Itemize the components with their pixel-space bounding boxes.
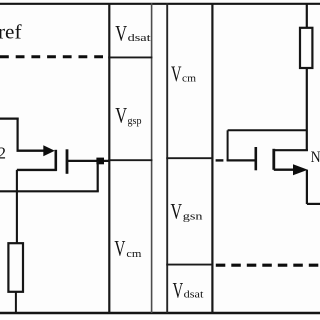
headroom ladder column 1 right edge: [151, 3, 153, 313]
svg-text:gsn: gsn: [183, 212, 204, 223]
label Vdsat column2 bottom: [173, 277, 204, 302]
svg-text:dsat: dsat: [128, 33, 151, 44]
resistor R1: [8, 243, 23, 292]
svg-text:V: V: [171, 199, 183, 224]
M2 source loop horizontal: [17, 169, 57, 171]
resistor R2: [300, 28, 312, 68]
svg-text:V: V: [114, 236, 125, 261]
wire N source down: [306, 170, 308, 204]
dashed level line left (Vref level): [0, 55, 108, 58]
svg-text:2: 2: [0, 144, 6, 163]
dashed level line right (source level): [216, 264, 320, 267]
headroom ladder column 1 left edge: [108, 3, 110, 313]
wire N source out right: [307, 203, 320, 205]
headroom ladder column 2 left edge: [166, 3, 168, 313]
column 1 divider Vdsat/Vgsp: [108, 56, 152, 58]
svg-text:N: N: [311, 149, 320, 166]
wire drain node bottom horizontal: [0, 190, 99, 192]
label Vcm column1: [114, 236, 141, 261]
wire diode branch vertical: [227, 130, 229, 161]
N drain lead top: [274, 149, 308, 151]
svg-text:V: V: [115, 103, 127, 128]
wire source down to resistor: [16, 170, 18, 244]
column 1 divider Vgsp/Vcm: [108, 159, 152, 161]
gate lead N transistor: [227, 159, 257, 161]
N source arrowhead: [293, 164, 308, 175]
transistor N gate bar: [255, 147, 258, 170]
junction dot drain node: [96, 158, 104, 165]
label Vgsp column1: [115, 103, 141, 128]
gate lead N transistor dash: [216, 159, 224, 161]
label Vcm column2: [171, 61, 196, 86]
wire R1 bottom: [15, 292, 17, 313]
wire R2 down: [306, 68, 308, 151]
transistor M2 gate bar: [54, 150, 57, 171]
wire Vdd to R2: [306, 4, 308, 28]
svg-text:V: V: [173, 277, 184, 302]
svg-text:ref: ref: [0, 22, 22, 44]
M2 drain lead: [67, 160, 110, 162]
wire M2 gate feed horizontal: [0, 117, 19, 119]
label Vgsn column2: [171, 199, 204, 224]
transistor N channel bar: [272, 149, 275, 170]
N source arrow line: [274, 168, 294, 170]
gate arrow line M2: [17, 149, 45, 151]
svg-text:dsat: dsat: [184, 290, 204, 301]
svg-text:cm: cm: [182, 73, 196, 84]
wire diode branch horizontal: [228, 129, 307, 131]
wire drain node down: [97, 161, 99, 191]
wire M2 gate feed vertical: [17, 118, 19, 151]
bottom ground rail: [0, 312, 320, 314]
column 2 divider Vgsn/Vdsat: [166, 264, 213, 266]
svg-text:V: V: [115, 20, 127, 45]
headroom ladder column 2 right edge: [211, 3, 213, 313]
label Vdsat column1: [115, 20, 151, 45]
top supply rail: [0, 3, 320, 5]
svg-text:V: V: [171, 61, 182, 86]
gate arrowhead M2: [43, 145, 55, 156]
column 2 divider Vcm/Vgsn: [166, 157, 213, 159]
svg-text:gsp: gsp: [128, 116, 142, 127]
svg-text:cm: cm: [126, 249, 141, 260]
transistor M2 channel bar: [66, 149, 69, 174]
